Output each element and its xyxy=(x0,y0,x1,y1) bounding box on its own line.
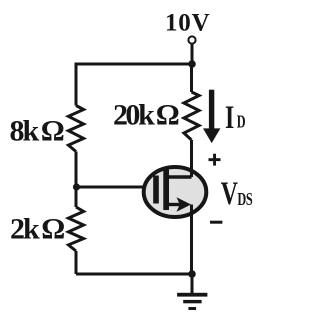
wire left rail bottom xyxy=(75,251,78,274)
transistor Q1 body (MOSFET circle) xyxy=(144,167,207,217)
terminal circle (10V supply) xyxy=(188,36,195,43)
wire right rail lower (source) xyxy=(190,205,193,275)
node bottom junction dot xyxy=(188,270,196,278)
wire left rail middle xyxy=(75,152,78,189)
ground bar 3 xyxy=(188,307,196,310)
resistor 2k ohm xyxy=(68,207,83,251)
minus sign (VDS) xyxy=(210,221,222,224)
wire terminal to top node xyxy=(191,44,194,64)
svg-text:V: V xyxy=(221,176,238,213)
transistor Q1 source arrow xyxy=(177,197,192,212)
wire bottom horizontal xyxy=(76,273,192,276)
wire right rail through ellipse top (drain) xyxy=(190,140,193,177)
transistor Q1 gate bar xyxy=(153,176,159,204)
transistor Q1 source line xyxy=(166,203,181,206)
svg-text:I: I xyxy=(225,99,234,136)
svg-text:10V: 10V xyxy=(165,10,210,37)
transistor Q1 channel bar xyxy=(163,169,169,210)
node top junction dot xyxy=(188,60,196,68)
wire gate horizontal xyxy=(76,186,154,189)
transistor Q1 drain line xyxy=(166,175,192,179)
plus sign (VDS) xyxy=(209,158,221,161)
svg-text:D: D xyxy=(237,112,246,132)
wire right rail upper xyxy=(190,63,193,93)
resistor 8k ohm xyxy=(68,106,83,152)
svg-text:DS: DS xyxy=(237,190,252,210)
ground bar 2 xyxy=(183,300,201,303)
svg-text:2kΩ: 2kΩ xyxy=(10,213,64,246)
ground bar 1 xyxy=(177,293,207,297)
node gate junction dot xyxy=(73,183,80,190)
resistor 20k ohm xyxy=(184,92,199,140)
svg-text:8kΩ: 8kΩ xyxy=(10,115,64,148)
wire left rail upper xyxy=(75,63,78,106)
wire to ground xyxy=(191,274,194,293)
svg-text:20kΩ: 20kΩ xyxy=(113,98,179,131)
arrow ID (drain current) xyxy=(209,90,214,129)
wire left rail lower xyxy=(75,187,78,207)
wire top horizontal xyxy=(76,63,192,66)
